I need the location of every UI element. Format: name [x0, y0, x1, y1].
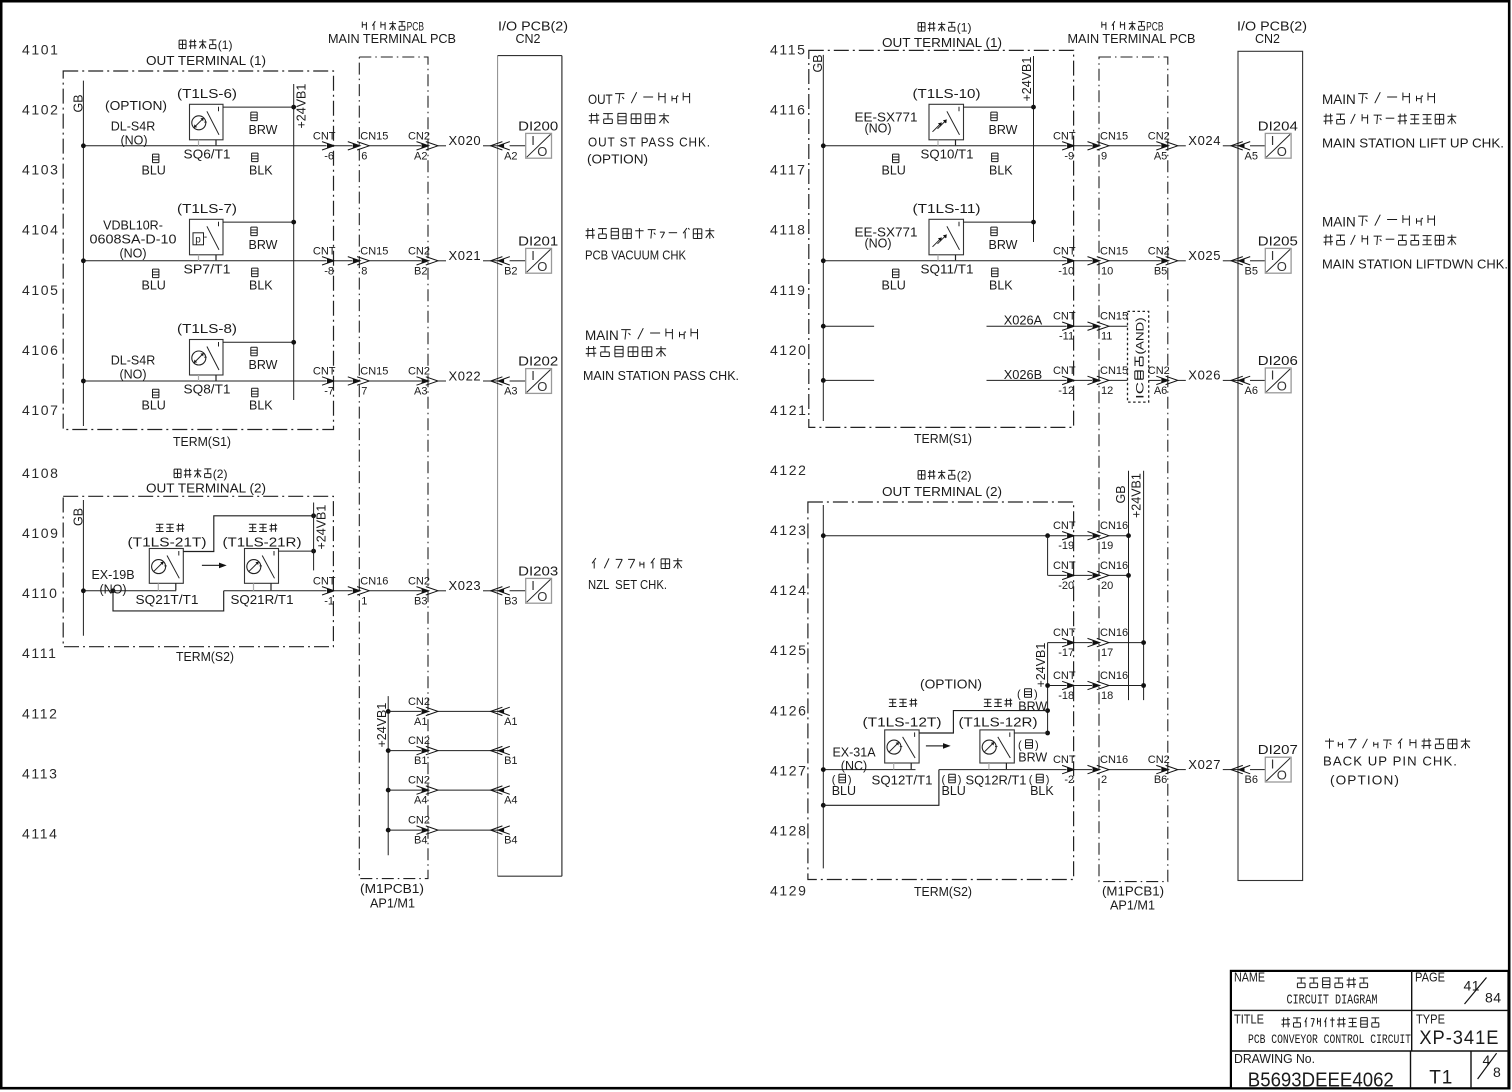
svg-text:BRW: BRW: [989, 123, 1018, 137]
svg-text:MAIN STATION PASS CHK.: MAIN STATION PASS CHK.: [583, 369, 739, 383]
svg-text:X021: X021: [449, 248, 482, 263]
svg-text:-10: -10: [1058, 265, 1074, 277]
svg-text:X026A: X026A: [1004, 313, 1043, 328]
svg-text:BLK: BLK: [249, 278, 273, 292]
svg-text:B6: B6: [1245, 774, 1258, 786]
svg-text:10: 10: [1101, 265, 1113, 277]
svg-text:A4: A4: [504, 795, 517, 807]
svg-text:4108: 4108: [22, 465, 60, 481]
svg-text:CN2: CN2: [408, 696, 430, 708]
svg-text:I: I: [531, 248, 535, 263]
svg-text:DL-S4R: DL-S4R: [111, 354, 155, 368]
svg-text:SQ12T/T1: SQ12T/T1: [872, 774, 933, 788]
svg-text:B5693DEEE4062: B5693DEEE4062: [1248, 1069, 1394, 1092]
svg-text:-11: -11: [1059, 331, 1074, 343]
svg-text:I: I: [531, 133, 535, 148]
svg-text:SQ6/T1: SQ6/T1: [184, 147, 231, 161]
svg-text:-7: -7: [324, 386, 334, 398]
svg-text:OUT TERMINAL (1): OUT TERMINAL (1): [146, 53, 266, 68]
svg-text:(OPTION): (OPTION): [105, 98, 167, 113]
svg-text:17: 17: [1101, 647, 1113, 659]
svg-text:TERM(S1): TERM(S1): [914, 431, 972, 446]
svg-text:MAIN STATION LIFTDWN CHK.: MAIN STATION LIFTDWN CHK.: [1322, 258, 1508, 272]
svg-text:A1: A1: [504, 716, 517, 728]
svg-text:4114: 4114: [22, 825, 59, 841]
svg-text:CN2: CN2: [408, 130, 430, 142]
svg-text:O: O: [1277, 379, 1287, 394]
svg-text:B3: B3: [504, 595, 517, 607]
svg-text:(NO): (NO): [99, 583, 126, 597]
svg-text:-9: -9: [1064, 150, 1074, 162]
svg-text:4129: 4129: [770, 883, 808, 899]
svg-text:I: I: [531, 578, 535, 593]
svg-text:SQ12R/T1: SQ12R/T1: [966, 774, 1027, 788]
svg-text:+24VB1: +24VB1: [1130, 473, 1144, 518]
svg-text:GB: GB: [72, 94, 86, 112]
svg-text:I: I: [1271, 757, 1275, 772]
svg-text:4123: 4123: [770, 522, 808, 538]
svg-text:20: 20: [1101, 580, 1113, 592]
svg-text:B3: B3: [414, 595, 427, 607]
svg-text:A2: A2: [504, 150, 517, 162]
svg-text:4128: 4128: [770, 822, 808, 838]
svg-text:(T1LS-21T): (T1LS-21T): [128, 535, 207, 550]
svg-text:CNT: CNT: [313, 366, 336, 378]
svg-text:OUT ST PASS CHK.: OUT ST PASS CHK.: [588, 136, 711, 150]
svg-text:-20: -20: [1058, 580, 1074, 592]
svg-text:8: 8: [1493, 1064, 1501, 1080]
svg-text:O: O: [537, 144, 547, 159]
svg-text:A6: A6: [1245, 385, 1258, 397]
svg-text:(NO): (NO): [119, 368, 146, 382]
svg-text:GB: GB: [72, 508, 86, 526]
svg-text:BLU: BLU: [142, 399, 166, 413]
svg-text:OUT TERMINAL (2): OUT TERMINAL (2): [146, 481, 266, 496]
svg-text:(NO): (NO): [119, 247, 146, 261]
svg-text:SP7/T1: SP7/T1: [184, 262, 231, 276]
svg-text:18: 18: [1101, 690, 1113, 702]
svg-text:-17: -17: [1058, 647, 1074, 659]
svg-text:TYPE: TYPE: [1416, 1013, 1445, 1027]
svg-text:DRAWING No.: DRAWING No.: [1234, 1052, 1315, 1066]
svg-text:SQ21R/T1: SQ21R/T1: [231, 593, 294, 607]
svg-text:CNT: CNT: [1053, 311, 1076, 323]
svg-text:(T1LS-10): (T1LS-10): [913, 86, 981, 101]
svg-text:4111: 4111: [22, 645, 57, 661]
svg-text:4106: 4106: [22, 342, 60, 358]
svg-text:XP-341E: XP-341E: [1419, 1028, 1499, 1049]
svg-text:BLK: BLK: [1030, 784, 1054, 798]
svg-text:CN2: CN2: [408, 245, 430, 257]
svg-text:TERM(S2): TERM(S2): [914, 884, 972, 899]
svg-text:A2: A2: [414, 150, 427, 162]
svg-text:X022: X022: [449, 368, 482, 383]
svg-text:CNT: CNT: [313, 130, 336, 142]
svg-text:4125: 4125: [770, 642, 808, 658]
svg-text:MAIN TERMINAL PCB: MAIN TERMINAL PCB: [328, 32, 456, 46]
svg-text:A5: A5: [1154, 150, 1167, 162]
svg-text:12: 12: [1101, 385, 1113, 397]
svg-text:DI200: DI200: [518, 118, 558, 133]
svg-text:MAIN: MAIN: [1322, 214, 1356, 230]
svg-text:4101: 4101: [22, 42, 60, 58]
svg-text:A5: A5: [1245, 150, 1258, 162]
svg-text:4: 4: [1483, 1052, 1491, 1068]
svg-text:-6: -6: [324, 150, 334, 162]
svg-text:CNT: CNT: [1053, 560, 1076, 572]
svg-text:A6: A6: [1154, 385, 1167, 397]
svg-text:4116: 4116: [770, 102, 807, 118]
svg-text:BRW: BRW: [249, 123, 278, 137]
svg-text:4124: 4124: [770, 582, 808, 598]
svg-text:CNT: CNT: [1053, 130, 1076, 142]
svg-text:X024: X024: [1188, 133, 1221, 148]
svg-text:X026B: X026B: [1004, 367, 1042, 382]
svg-text:CN2: CN2: [408, 366, 430, 378]
svg-text:BLK: BLK: [249, 163, 273, 177]
svg-text:1: 1: [361, 595, 367, 607]
svg-text:I: I: [1271, 248, 1275, 263]
svg-text:BLK: BLK: [249, 399, 273, 413]
svg-text:CNT: CNT: [1053, 627, 1076, 639]
svg-text:AP1/M1: AP1/M1: [1110, 899, 1155, 913]
svg-text:CN16: CN16: [1100, 560, 1128, 572]
svg-text:EX-19B: EX-19B: [91, 568, 134, 582]
svg-text:+24VB1: +24VB1: [1020, 57, 1034, 102]
svg-text:7: 7: [361, 386, 367, 398]
svg-text:CN2: CN2: [1148, 754, 1170, 766]
svg-text:(T1LS-11): (T1LS-11): [913, 201, 981, 216]
svg-text:0608SA-D-10: 0608SA-D-10: [90, 233, 177, 247]
svg-text:TERM(S1): TERM(S1): [173, 434, 231, 449]
svg-text:O: O: [1277, 259, 1287, 274]
svg-text:MAIN: MAIN: [1322, 91, 1356, 107]
svg-text:BRW: BRW: [249, 358, 278, 372]
svg-text:(NO): (NO): [864, 236, 891, 250]
svg-text:BLU: BLU: [882, 278, 906, 292]
svg-text:4121: 4121: [770, 402, 808, 418]
svg-text:+24VB1: +24VB1: [375, 703, 389, 748]
svg-text:MAIN TERMINAL PCB: MAIN TERMINAL PCB: [1068, 32, 1196, 46]
svg-text:BRW: BRW: [1018, 700, 1047, 714]
svg-text:p: p: [195, 235, 201, 246]
svg-text:-1: -1: [324, 595, 334, 607]
svg-text:TITLE: TITLE: [1234, 1013, 1264, 1027]
svg-text:CN16: CN16: [360, 575, 388, 587]
svg-text:4109: 4109: [22, 525, 60, 541]
svg-text:4102: 4102: [22, 102, 60, 118]
svg-text:4122: 4122: [770, 462, 808, 478]
svg-text:(T1LS-21R): (T1LS-21R): [223, 535, 302, 550]
svg-text:BACK UP PIN CHK.: BACK UP PIN CHK.: [1323, 755, 1458, 769]
svg-text:CN2: CN2: [1148, 130, 1170, 142]
svg-text:CNT: CNT: [1053, 365, 1076, 377]
svg-text:NZL SET CHK.: NZL SET CHK.: [588, 578, 667, 592]
svg-text:41: 41: [1464, 978, 1481, 994]
svg-text:CN2: CN2: [408, 815, 430, 827]
svg-text:B4: B4: [504, 835, 517, 847]
svg-text:OUT TERMINAL (2): OUT TERMINAL (2): [882, 484, 1002, 499]
svg-text:(T1LS-7): (T1LS-7): [177, 201, 237, 216]
svg-text:4115: 4115: [770, 42, 807, 58]
svg-text:BRW: BRW: [249, 238, 278, 252]
svg-text:(AND): (AND): [1134, 317, 1146, 354]
svg-text:X026: X026: [1188, 368, 1221, 383]
svg-text:I: I: [1271, 133, 1275, 148]
svg-text:9: 9: [1101, 150, 1107, 162]
svg-text:-18: -18: [1058, 690, 1074, 702]
svg-text:B6: B6: [1154, 774, 1167, 786]
svg-text:A4: A4: [414, 795, 427, 807]
svg-text:SQ11/T1: SQ11/T1: [921, 262, 974, 276]
svg-text:O: O: [537, 589, 547, 604]
svg-text:CIRCUIT DIAGRAM: CIRCUIT DIAGRAM: [1287, 994, 1378, 1009]
svg-text:+24VB1: +24VB1: [315, 505, 329, 550]
svg-text:SQ21T/T1: SQ21T/T1: [136, 593, 199, 607]
svg-text:B5: B5: [1154, 265, 1167, 277]
svg-text:CN2: CN2: [408, 775, 430, 787]
svg-text:4104: 4104: [22, 222, 60, 238]
svg-text:CN15: CN15: [360, 366, 388, 378]
svg-text:CNT: CNT: [1053, 670, 1076, 682]
svg-text:4119: 4119: [770, 282, 807, 298]
svg-text:BLK: BLK: [989, 278, 1013, 292]
svg-text:PCB CONVEYOR CONTROL CIRCUIT: PCB CONVEYOR CONTROL CIRCUIT: [1248, 1032, 1411, 1047]
svg-text:CN2: CN2: [1255, 32, 1280, 46]
svg-text:IC: IC: [1134, 382, 1146, 399]
svg-text:4126: 4126: [770, 702, 808, 718]
svg-text:X027: X027: [1188, 757, 1221, 772]
svg-text:DL-S4R: DL-S4R: [111, 120, 155, 134]
svg-text:CN2: CN2: [408, 735, 430, 747]
svg-text:MAIN STATION LIFT UP CHK.: MAIN STATION LIFT UP CHK.: [1322, 137, 1504, 151]
svg-text:TERM(S2): TERM(S2): [176, 649, 234, 664]
svg-text:CNT: CNT: [1053, 754, 1076, 766]
svg-text:B1: B1: [504, 755, 517, 767]
svg-text:BRW: BRW: [1018, 751, 1047, 765]
svg-text:A3: A3: [414, 386, 427, 398]
svg-text:(2): (2): [957, 469, 972, 483]
svg-text:(T1LS-12R): (T1LS-12R): [959, 715, 1038, 730]
svg-text:SQ10/T1: SQ10/T1: [921, 147, 974, 161]
svg-text:CN15: CN15: [1100, 130, 1128, 142]
svg-text:GB: GB: [1114, 485, 1128, 503]
svg-text:CN15: CN15: [1100, 245, 1128, 257]
svg-text:(T1LS-6): (T1LS-6): [177, 86, 237, 101]
svg-text:4127: 4127: [770, 762, 808, 778]
svg-text:2: 2: [1101, 774, 1107, 786]
svg-text:X020: X020: [449, 133, 482, 148]
svg-text:AP1/M1: AP1/M1: [370, 897, 415, 911]
svg-text:T1: T1: [1429, 1068, 1453, 1089]
svg-text:4105: 4105: [22, 282, 60, 298]
svg-text:-19: -19: [1058, 540, 1074, 552]
svg-text:4113: 4113: [22, 765, 59, 781]
svg-text:4103: 4103: [22, 162, 60, 178]
svg-text:PAGE: PAGE: [1415, 971, 1445, 985]
svg-text:6: 6: [361, 150, 367, 162]
svg-text:DI202: DI202: [518, 354, 558, 369]
svg-text:SQ8/T1: SQ8/T1: [184, 383, 231, 397]
svg-text:BLK: BLK: [989, 163, 1013, 177]
svg-text:CNT: CNT: [1053, 520, 1076, 532]
svg-text:4117: 4117: [770, 162, 807, 178]
svg-text:CN2: CN2: [515, 32, 540, 46]
svg-text:+24VB1: +24VB1: [295, 84, 309, 129]
svg-text:BLU: BLU: [942, 784, 966, 798]
svg-text:I: I: [1271, 368, 1275, 383]
svg-text:(2): (2): [213, 467, 228, 481]
svg-text:(1): (1): [218, 38, 233, 52]
svg-text:O: O: [537, 259, 547, 274]
svg-text:BRW: BRW: [989, 238, 1018, 252]
svg-text:CN16: CN16: [1100, 670, 1128, 682]
svg-text:PCB VACUUM CHK: PCB VACUUM CHK: [585, 249, 687, 263]
svg-text:-2: -2: [1064, 774, 1074, 786]
svg-text:CNT: CNT: [1053, 245, 1076, 257]
svg-text:4112: 4112: [22, 705, 59, 721]
svg-text:B2: B2: [414, 265, 427, 277]
svg-text:(OPTION): (OPTION): [1330, 774, 1400, 788]
svg-text:19: 19: [1101, 540, 1113, 552]
svg-text:(NO): (NO): [120, 134, 147, 148]
svg-text:-12: -12: [1058, 385, 1074, 397]
svg-text:O: O: [1277, 144, 1287, 159]
svg-text:11: 11: [1101, 331, 1112, 343]
svg-text:CN2: CN2: [1148, 245, 1170, 257]
svg-text:CN2: CN2: [1148, 365, 1170, 377]
svg-text:CN2: CN2: [408, 575, 430, 587]
svg-text:BLU: BLU: [832, 784, 856, 798]
svg-text:O: O: [1277, 768, 1287, 783]
svg-text:B1: B1: [414, 755, 427, 767]
svg-text:CN16: CN16: [1100, 520, 1128, 532]
svg-text:I: I: [531, 368, 535, 383]
svg-text:(OPTION): (OPTION): [920, 677, 982, 692]
svg-text:CNT: CNT: [313, 245, 336, 257]
svg-text:BLU: BLU: [142, 278, 166, 292]
svg-text:CNT: CNT: [313, 575, 336, 587]
svg-text:B5: B5: [1245, 265, 1258, 277]
svg-text:CN16: CN16: [1100, 754, 1128, 766]
svg-text:GB: GB: [811, 54, 825, 72]
svg-text:VDBL10R-: VDBL10R-: [103, 219, 163, 233]
svg-text:+24VB1: +24VB1: [1034, 643, 1048, 688]
svg-text:DI206: DI206: [1258, 353, 1298, 368]
svg-text:(M1PCB1): (M1PCB1): [360, 882, 424, 896]
svg-text:4110: 4110: [22, 585, 59, 601]
svg-text:4107: 4107: [22, 402, 60, 418]
svg-text:84: 84: [1485, 990, 1502, 1006]
svg-text:(OPTION): (OPTION): [587, 153, 648, 167]
svg-text:(1): (1): [957, 21, 972, 35]
svg-text:(NO): (NO): [864, 121, 891, 135]
svg-text:X023: X023: [449, 578, 482, 593]
svg-text:BLU: BLU: [882, 163, 906, 177]
svg-text:X025: X025: [1188, 248, 1221, 263]
svg-text:CN16: CN16: [1100, 627, 1128, 639]
svg-text:B2: B2: [504, 265, 517, 277]
svg-text:4118: 4118: [770, 222, 807, 238]
svg-text:OUT: OUT: [588, 91, 613, 107]
svg-text:A3: A3: [504, 386, 517, 398]
svg-text:CN15: CN15: [360, 130, 388, 142]
svg-text:(T1LS-12T): (T1LS-12T): [863, 715, 942, 730]
svg-text:B4: B4: [414, 835, 427, 847]
svg-text:EX-31A: EX-31A: [832, 746, 876, 760]
svg-text:DI201: DI201: [518, 233, 558, 248]
svg-text:OUT TERMINAL (1): OUT TERMINAL (1): [882, 35, 1002, 50]
svg-text:DI205: DI205: [1258, 233, 1298, 248]
svg-text:(NC): (NC): [841, 759, 867, 773]
svg-text:8: 8: [361, 265, 367, 277]
svg-text:A1: A1: [414, 716, 427, 728]
svg-text:(M1PCB1): (M1PCB1): [1102, 885, 1164, 899]
svg-text:CN15: CN15: [1100, 311, 1128, 323]
svg-text:CN15: CN15: [1100, 365, 1128, 377]
svg-text:DI207: DI207: [1258, 742, 1298, 757]
svg-text:DI203: DI203: [518, 563, 558, 578]
svg-text:(T1LS-8): (T1LS-8): [177, 321, 237, 336]
svg-text:O: O: [537, 379, 547, 394]
svg-text:4120: 4120: [770, 342, 808, 358]
svg-text:CN15: CN15: [360, 245, 388, 257]
svg-text:-8: -8: [324, 265, 334, 277]
svg-text:MAIN: MAIN: [585, 327, 619, 343]
svg-text:DI204: DI204: [1258, 118, 1298, 133]
svg-text:NAME: NAME: [1234, 971, 1265, 985]
svg-text:BLU: BLU: [142, 163, 166, 177]
